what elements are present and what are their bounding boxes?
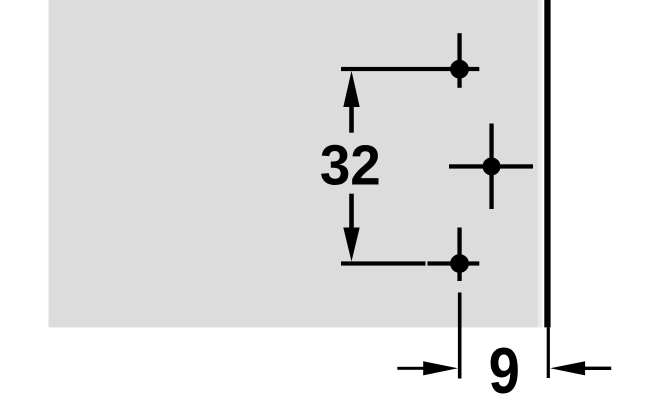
wire: H2 centerline horizontal	[428, 261, 480, 265]
value label 9	[489, 334, 520, 400]
wire: H2 centerline vertical	[457, 228, 461, 282]
wire: extension line from H2 down	[458, 293, 462, 379]
panel (board face, grey)	[49, 0, 543, 327]
value label 32	[320, 133, 381, 197]
dimension 32 arrow down	[343, 194, 359, 262]
dimension 9 arrow pointing right	[397, 361, 458, 375]
wire: top dimension line with H1 centerline horizontal	[341, 67, 479, 71]
dimension 9 arrow pointing left	[550, 361, 611, 375]
wire: bottom dimension line to H2	[341, 261, 426, 265]
wire: extension line from edge band down	[547, 327, 550, 378]
dimension 32 arrow up	[343, 71, 359, 133]
wire: adjustment hole cross vertical	[489, 124, 493, 210]
node A (adjustment hole)	[483, 157, 501, 175]
hole H1 (top system hole)	[450, 60, 469, 79]
svg-text:9: 9	[489, 334, 520, 400]
svg-text:32: 32	[320, 133, 381, 197]
hole H2 (bottom system hole)	[450, 254, 469, 273]
wire: adjustment hole cross horizontal	[449, 164, 533, 168]
wire: H1 centerline vertical	[457, 33, 461, 88]
edge band (thick board edge line)	[544, 0, 550, 327]
